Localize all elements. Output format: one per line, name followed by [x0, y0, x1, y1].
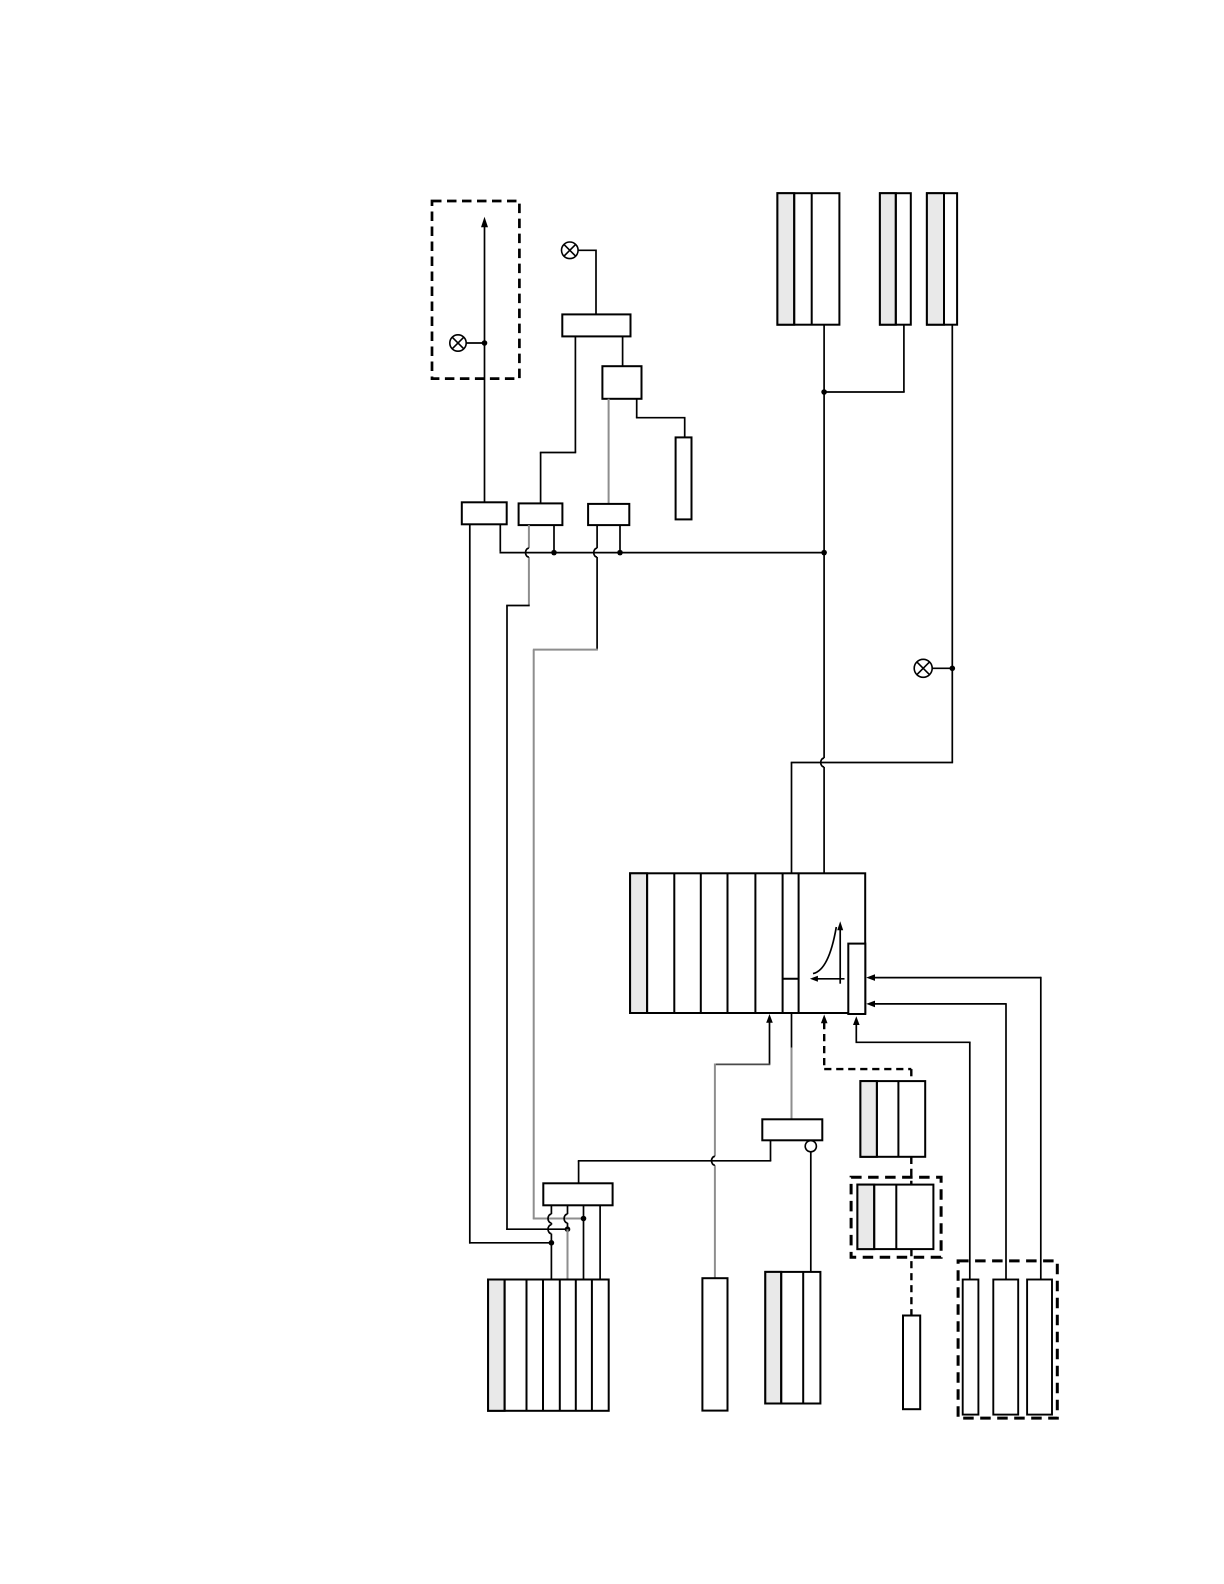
wire: A1 bottom-left long vertical down to bottom bus [469, 524, 471, 1243]
box R2 [993, 1280, 1018, 1415]
striped block P3 (top right) [927, 193, 957, 325]
junction dot where jog wire meets pin p2 [565, 1226, 571, 1232]
crossover hop on B3 vertical at y=552.6 [594, 548, 597, 557]
wire: A1 bottom-right down then right along bus y=552.6 to P1 vertical [499, 524, 501, 552]
wire: S2 right then down to box T1 [578, 249, 596, 251]
divider segment in narrow column of M [783, 978, 799, 980]
wire: T1 bottom-right down to box T2 top [622, 336, 624, 366]
wire: P3 bottom down to junction with S3 [951, 325, 953, 763]
wire: elbow left (dark gray) at y=1064.4 [714, 1063, 770, 1065]
wire: bubble down to bottom striped block SC top [810, 1152, 812, 1272]
bottom striped block SC [765, 1272, 820, 1404]
narrow box N1 [903, 1316, 920, 1410]
junction dot on P1 vertical at y=392 [821, 389, 827, 395]
circled-X source symbol S3 [914, 659, 932, 677]
crossover hop on B2 gray vertical at y=552.6 [526, 548, 529, 557]
box R1 [963, 1280, 979, 1415]
crossover hop on gray vertical at y=1160.8 [712, 1156, 715, 1165]
wire (gray): B2 bottom-left down (hops bus) to jog [528, 525, 530, 548]
tall thin rectangle T3 [676, 437, 692, 519]
wire: W1 bottom-left down, left (hop over gray), down to box W2 top [770, 1140, 772, 1161]
wire: branch from P1 vertical right and up to P2 bottom [824, 391, 905, 393]
pin p4 of W2 down [599, 1205, 601, 1279]
junction dot where A1 wire meets pin p1 [549, 1240, 555, 1246]
dashed enclosure box (top-left) [432, 201, 519, 379]
striped block D2 inside DB [857, 1185, 933, 1250]
box B2 [519, 503, 563, 525]
pin p2 of W2 down (one hop, gray below junction) [567, 1205, 569, 1214]
junction dot on P1 vertical at y=552.6 [821, 550, 827, 556]
junction dot B3 pin2 on bus [617, 550, 623, 556]
wire (gray): jog left and long vertical down to pin p3 bus [533, 649, 598, 651]
slide rectangle SR on right edge of M [848, 944, 865, 1014]
pin p3 of W2 down [583, 1205, 585, 1279]
wire: T1 bottom-left down, left, down to box B2 top [574, 336, 576, 452]
box W1 (wide middle box) [762, 1119, 822, 1140]
box T2 (small top box) [602, 366, 641, 399]
striped block P2 (top right) [880, 193, 911, 325]
junction dot on arrow line at S1 [482, 340, 488, 346]
crossover hop on p2 at y=1218.5 [564, 1214, 567, 1223]
arrowhead up (top of arrow line) [481, 217, 488, 228]
wire arrow up into M bottom (pin at x=769.5) [766, 1014, 773, 1023]
junction dot B2 pin2 on bus [551, 550, 557, 556]
circled-X source symbol S2 [562, 242, 579, 259]
box B3 [588, 504, 629, 525]
main striped block M (8 columns) [630, 873, 865, 1013]
striped block P1 (top right, 3 columns) [777, 193, 839, 325]
pin p1 of W2 down to bottom block (two hops) [550, 1205, 552, 1214]
crossover hop on P1 vertical at horizontal y=762.5 [821, 758, 824, 767]
box T1 (wide top box) [562, 314, 630, 336]
wire: S3 to P3 vertical [932, 667, 952, 669]
circled-X source symbol S1 [450, 335, 466, 351]
dashed wire: D1 bottom to dashed box DB top [910, 1157, 912, 1185]
box A1 [462, 502, 507, 524]
wire: B2 bottom-right down to bus [553, 525, 555, 553]
bottom striped block SA (7 columns) [488, 1280, 609, 1411]
wire: jog left and long vertical down to pin p2 bus [506, 605, 530, 607]
junction dot at S3 on P3 vertical [950, 666, 956, 672]
inverter bubble on W1 bottom-right [805, 1141, 816, 1152]
characteristic-curve horizontal axis with left arrow [817, 978, 845, 980]
characteristic-curve vertical axis with up arrow [839, 929, 841, 984]
box R3 [1027, 1280, 1052, 1415]
wire arrow up into SR bottom, elbow right, down to box R1 [853, 1016, 860, 1025]
box W2 (four-pin box) [543, 1183, 612, 1205]
wire (gray): T2 bottom-left down to box B3 top [608, 399, 610, 504]
wire arrow left into SR right edge (lower), from box R2 [866, 1001, 875, 1008]
wire: B3 bottom-left down (hops bus) to gray jog [596, 525, 598, 548]
wire arrow left into SR right edge (upper), from box R3 [866, 974, 875, 981]
wire: M bottom pin down to box W1 (black then gray) [791, 1013, 793, 1048]
characteristic-curve symbol inside M: exponential curve [813, 927, 836, 974]
dashed wire arrow up into M bottom, elbow right, down to block D1 top [821, 1015, 828, 1024]
wire: vertical arrow line from box A1 up through dashed enclosure [484, 227, 486, 503]
crossover hop on p1 at y=1218.5 [548, 1214, 551, 1223]
crossover hop on p1 at y=1229.2 [548, 1225, 551, 1234]
striped block D1 [860, 1081, 925, 1157]
wire: S1 to arrow line [466, 342, 484, 344]
wire: P1 bottom long vertical down to main block top (hop at y=762.5) [823, 325, 825, 758]
wire: P3 line left then down into main block top [791, 762, 953, 764]
wire: T2 bottom-right down, right, down to tall rectangle top [636, 399, 638, 418]
dashed box DB [851, 1177, 941, 1257]
dashed box DR (bottom right) [958, 1261, 1057, 1418]
junction dot where gray jog meets pin p3 [581, 1216, 587, 1222]
bottom small box SB [702, 1278, 727, 1410]
wire (gray): vertical down to bottom small box SB (hop at y=1160.8) [714, 1064, 716, 1157]
wire: B3 bottom-right down to bus [619, 525, 621, 553]
dashed wire: D2 bottom down to narrow box N1 top [910, 1249, 912, 1315]
